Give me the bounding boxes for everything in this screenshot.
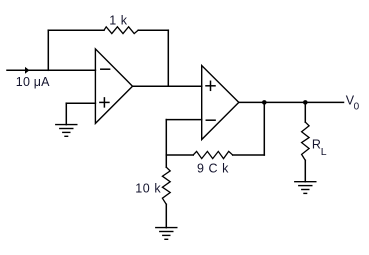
wire from R2 right to feedback vertical xyxy=(233,154,265,156)
ground symbol at U1 + input xyxy=(56,125,77,137)
wire feedback vertical from U2 output node xyxy=(263,102,265,155)
svg-text:9 C k: 9 C k xyxy=(197,162,229,176)
op-amp U1 triangle xyxy=(95,49,132,124)
ground symbol under RL xyxy=(295,182,316,194)
node D junction dot load xyxy=(303,100,308,105)
resistor R1 1 k zigzag xyxy=(104,27,138,34)
wire from node B to R2 left xyxy=(166,154,193,156)
wire from node B down to R3 xyxy=(165,155,167,167)
arrowhead input current direction xyxy=(25,67,30,74)
wire input from left to U1 inverting input xyxy=(7,69,95,71)
wire RL bottom to ground xyxy=(304,160,306,181)
wire U1 non-inverting input to ground xyxy=(66,102,95,104)
node C junction dot feedback xyxy=(262,100,267,105)
wire from node D down to RL xyxy=(304,102,306,122)
wire feedback left vertical xyxy=(47,30,49,70)
wire R3 bottom to ground xyxy=(165,204,167,227)
svg-text:1 k: 1 k xyxy=(109,14,128,28)
svg-text:10 μA: 10 μA xyxy=(16,75,50,89)
resistor R2 9 C k zigzag xyxy=(193,151,233,158)
resistor RL vertical zigzag xyxy=(302,122,310,160)
wire inverting branch vertical down to node B xyxy=(165,120,167,155)
svg-text:10 k: 10 k xyxy=(135,182,161,196)
op-amp U2 plus sign (non-inverting input) xyxy=(206,85,215,87)
op-amp U1 plus sign (non-inverting input) xyxy=(100,101,109,103)
wire U1 output to U2 non-inverting input xyxy=(133,85,202,87)
wire feedback right vertical to U1 output xyxy=(167,30,169,86)
wire top right from R1 xyxy=(138,29,168,31)
svg-text:0: 0 xyxy=(354,102,360,113)
svg-text:L: L xyxy=(321,146,327,158)
op-amp U2 minus sign (inverting input) xyxy=(206,119,215,121)
resistor R3 10 k vertical zigzag xyxy=(162,167,170,204)
op-amp U1 minus sign (inverting input) xyxy=(101,68,110,70)
svg-text:R: R xyxy=(312,137,321,151)
wire top left to R1 xyxy=(48,29,104,31)
wire U2 output to Vo xyxy=(239,101,344,103)
wire ground stem at U1 xyxy=(65,103,67,124)
wire U2 inverting input horizontal xyxy=(166,119,201,121)
op-amp U2 triangle xyxy=(202,66,239,140)
ground symbol under R3 xyxy=(156,228,177,240)
